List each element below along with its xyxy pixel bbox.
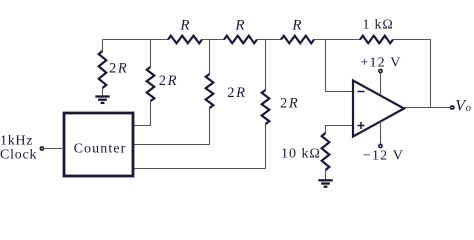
- wire: positive supply stub: [380, 73, 382, 95]
- svg-text:+12 V: +12 V: [360, 56, 401, 71]
- wire: 10k to ground: [325, 170, 327, 180]
- resistor 10 kOhm: [322, 133, 330, 170]
- wire: rail R2 to R3: [257, 39, 281, 41]
- resistor R2: [224, 36, 257, 44]
- wire: rail R1 to R2: [202, 39, 224, 41]
- wire: 2R#3 stubs and run to counter middle output: [209, 40, 211, 75]
- svg-text:2R: 2R: [159, 73, 177, 89]
- svg-text:2R: 2R: [227, 85, 245, 101]
- wire: non-inverting input to 10k: [326, 126, 354, 134]
- resistor 2R#4: [262, 90, 270, 124]
- ground under 2R#1: [95, 95, 109, 97]
- svg-text:1kHz: 1kHz: [0, 134, 33, 149]
- svg-text:10 kΩ: 10 kΩ: [281, 147, 321, 162]
- svg-text:R: R: [234, 18, 244, 34]
- wire: 2R#2 stubs and run to counter top output: [150, 40, 152, 68]
- terminal Vo: [451, 106, 454, 109]
- wire: top rail left segment (node A to R1): [103, 39, 169, 41]
- wire: rail R3 to 1k feedback resistor: [314, 39, 360, 41]
- counter box: [64, 113, 133, 176]
- svg-text:R: R: [179, 18, 189, 34]
- resistor R3: [281, 36, 314, 44]
- wire: negative supply stub: [380, 121, 382, 144]
- svg-text:2R: 2R: [109, 61, 127, 77]
- resistor R1: [168, 36, 202, 44]
- wire: 2R#1 stubs: [102, 40, 104, 52]
- op-amp plus sign: [358, 125, 365, 127]
- resistor RF 1 kOhm feedback: [360, 36, 393, 44]
- svg-text:Clock: Clock: [0, 148, 37, 163]
- terminal +12 V: [379, 69, 382, 72]
- svg-text:1 kΩ: 1 kΩ: [362, 18, 393, 33]
- op-amp minus sign: [358, 91, 365, 93]
- terminal -12 V: [379, 144, 382, 147]
- svg-text:Counter: Counter: [74, 142, 127, 157]
- ground under 10k: [318, 179, 332, 181]
- wire: op-amp output to Vo terminal: [404, 107, 450, 109]
- wire: clock input: [44, 148, 64, 150]
- wire: feedback top right and down to output: [393, 40, 431, 108]
- resistor 2R#2: [147, 67, 155, 101]
- wire: 2R#4 stubs and run to counter bottom output: [265, 40, 267, 91]
- resistor 2R#3: [206, 74, 214, 108]
- svg-text:o: o: [466, 103, 471, 114]
- resistor 2R#1: [99, 51, 107, 88]
- terminal clock input: [40, 147, 43, 150]
- op-amp U1: [353, 81, 404, 137]
- wire: inverting input from rail: [326, 40, 354, 92]
- svg-text:−12 V: −12 V: [363, 149, 404, 164]
- svg-text:R: R: [291, 18, 301, 34]
- svg-text:2R: 2R: [280, 96, 298, 112]
